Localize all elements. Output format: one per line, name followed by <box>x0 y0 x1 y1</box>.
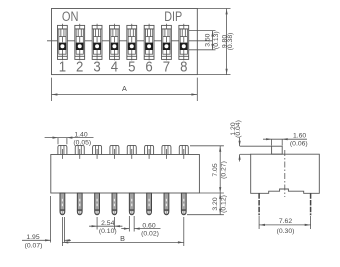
end view left pin <box>258 193 260 215</box>
svg-text:1: 1 <box>59 58 66 75</box>
actuator bump 1 (side view) <box>58 145 67 159</box>
svg-text:6: 6 <box>145 58 152 75</box>
svg-text:(0.02): (0.02) <box>141 231 159 238</box>
svg-text:B: B <box>120 234 125 243</box>
actuator bump 3 (side view) <box>93 145 102 159</box>
switch S5 (top view) <box>127 24 137 61</box>
side (front) view: body outline <box>51 155 200 194</box>
end view actuator tab <box>272 146 283 154</box>
svg-text:(0.07): (0.07) <box>25 242 43 249</box>
actuator bump 8 (side view) <box>179 145 188 159</box>
svg-text:(0.10): (0.10) <box>99 228 117 235</box>
dimension 9.80 (0.38) body height <box>197 9 230 75</box>
dimension 0.60 (0.02) pin width <box>121 216 160 232</box>
svg-text:(0.38): (0.38) <box>227 33 234 51</box>
actuator bump 2 (side view) <box>75 145 84 159</box>
actuator bump 7 (side view) <box>162 145 171 159</box>
dimension 1.95 (0.07) body edge to pin <box>22 196 71 243</box>
svg-text:1.60: 1.60 <box>293 133 306 140</box>
dimension B (pin row span) <box>62 217 183 246</box>
pin 3 (side view) <box>95 193 100 215</box>
switch S3 (top view) <box>92 24 102 61</box>
switch S4 (top view) <box>110 24 120 61</box>
svg-text:2: 2 <box>76 58 83 75</box>
svg-text:7: 7 <box>163 58 170 75</box>
svg-text:(0.13): (0.13) <box>213 31 220 49</box>
svg-text:1.40: 1.40 <box>74 131 87 138</box>
dimension 1.20 (0.04) actuator height <box>240 138 272 162</box>
svg-text:3.50: 3.50 <box>205 33 212 46</box>
end (profile) view: body outline with stepped bottom <box>251 154 320 193</box>
svg-text:3: 3 <box>93 58 100 75</box>
svg-text:4: 4 <box>111 58 118 75</box>
svg-text:A: A <box>122 84 127 93</box>
svg-text:(0.30): (0.30) <box>277 228 295 235</box>
end view vertical centerline <box>284 150 286 197</box>
dimension 2.54 (0.10) pin pitch <box>89 217 122 230</box>
actuator bump 4 (side view) <box>110 145 119 159</box>
svg-text:1.95: 1.95 <box>26 234 39 241</box>
svg-text:(0.05): (0.05) <box>73 139 91 146</box>
dimension 1.40 (0.05) bump width <box>45 138 94 145</box>
switch S6 (top view) <box>144 24 154 61</box>
dimension A (overall width) <box>52 78 198 101</box>
svg-text:(0.27): (0.27) <box>221 161 228 179</box>
svg-text:8: 8 <box>180 58 187 75</box>
actuator bump 6 (side view) <box>145 145 154 159</box>
pin 1 (side view) <box>60 193 65 215</box>
svg-text:7.62: 7.62 <box>279 218 292 225</box>
switch S2 (top view) <box>75 24 85 61</box>
pin 4 (side view) <box>112 193 117 215</box>
actuator bump 5 (side view) <box>127 145 136 159</box>
top view: DIP switch body outline <box>52 9 198 75</box>
end view right pin <box>310 193 312 215</box>
dimension 3.50 (0.13) actuator slot height <box>189 31 216 50</box>
pin 6 (side view) <box>147 193 152 215</box>
svg-text:3.20: 3.20 <box>212 197 219 210</box>
switch S8 (top view) <box>179 24 189 61</box>
pin 7 (side view) <box>164 193 169 215</box>
svg-text:0.60: 0.60 <box>142 222 155 229</box>
pin 8 (side view) <box>181 193 186 215</box>
svg-text:2.54: 2.54 <box>101 220 114 227</box>
dimension 1.60 (0.06) actuator width <box>263 139 307 145</box>
svg-text:(0.06): (0.06) <box>290 140 308 147</box>
pin 5 (side view) <box>129 193 134 215</box>
svg-text:DIP: DIP <box>164 9 182 25</box>
svg-text:7.05: 7.05 <box>212 163 219 176</box>
svg-text:5: 5 <box>128 58 135 75</box>
switch S1 (top view) <box>58 24 68 61</box>
svg-text:(0.04): (0.04) <box>235 120 242 138</box>
pin 2 (side view) <box>77 193 82 215</box>
svg-text:ON: ON <box>62 8 79 25</box>
horizontal centerline through switch actuators <box>47 40 213 42</box>
switch S7 (top view) <box>162 24 172 61</box>
dimension 7.62 (0.30) pin spacing <box>259 216 311 229</box>
dimension 3.20 (0.12) pin length <box>187 193 224 215</box>
svg-text:(0.12): (0.12) <box>221 195 228 213</box>
dimension 7.05 (0.27) body+bump height <box>190 146 224 193</box>
